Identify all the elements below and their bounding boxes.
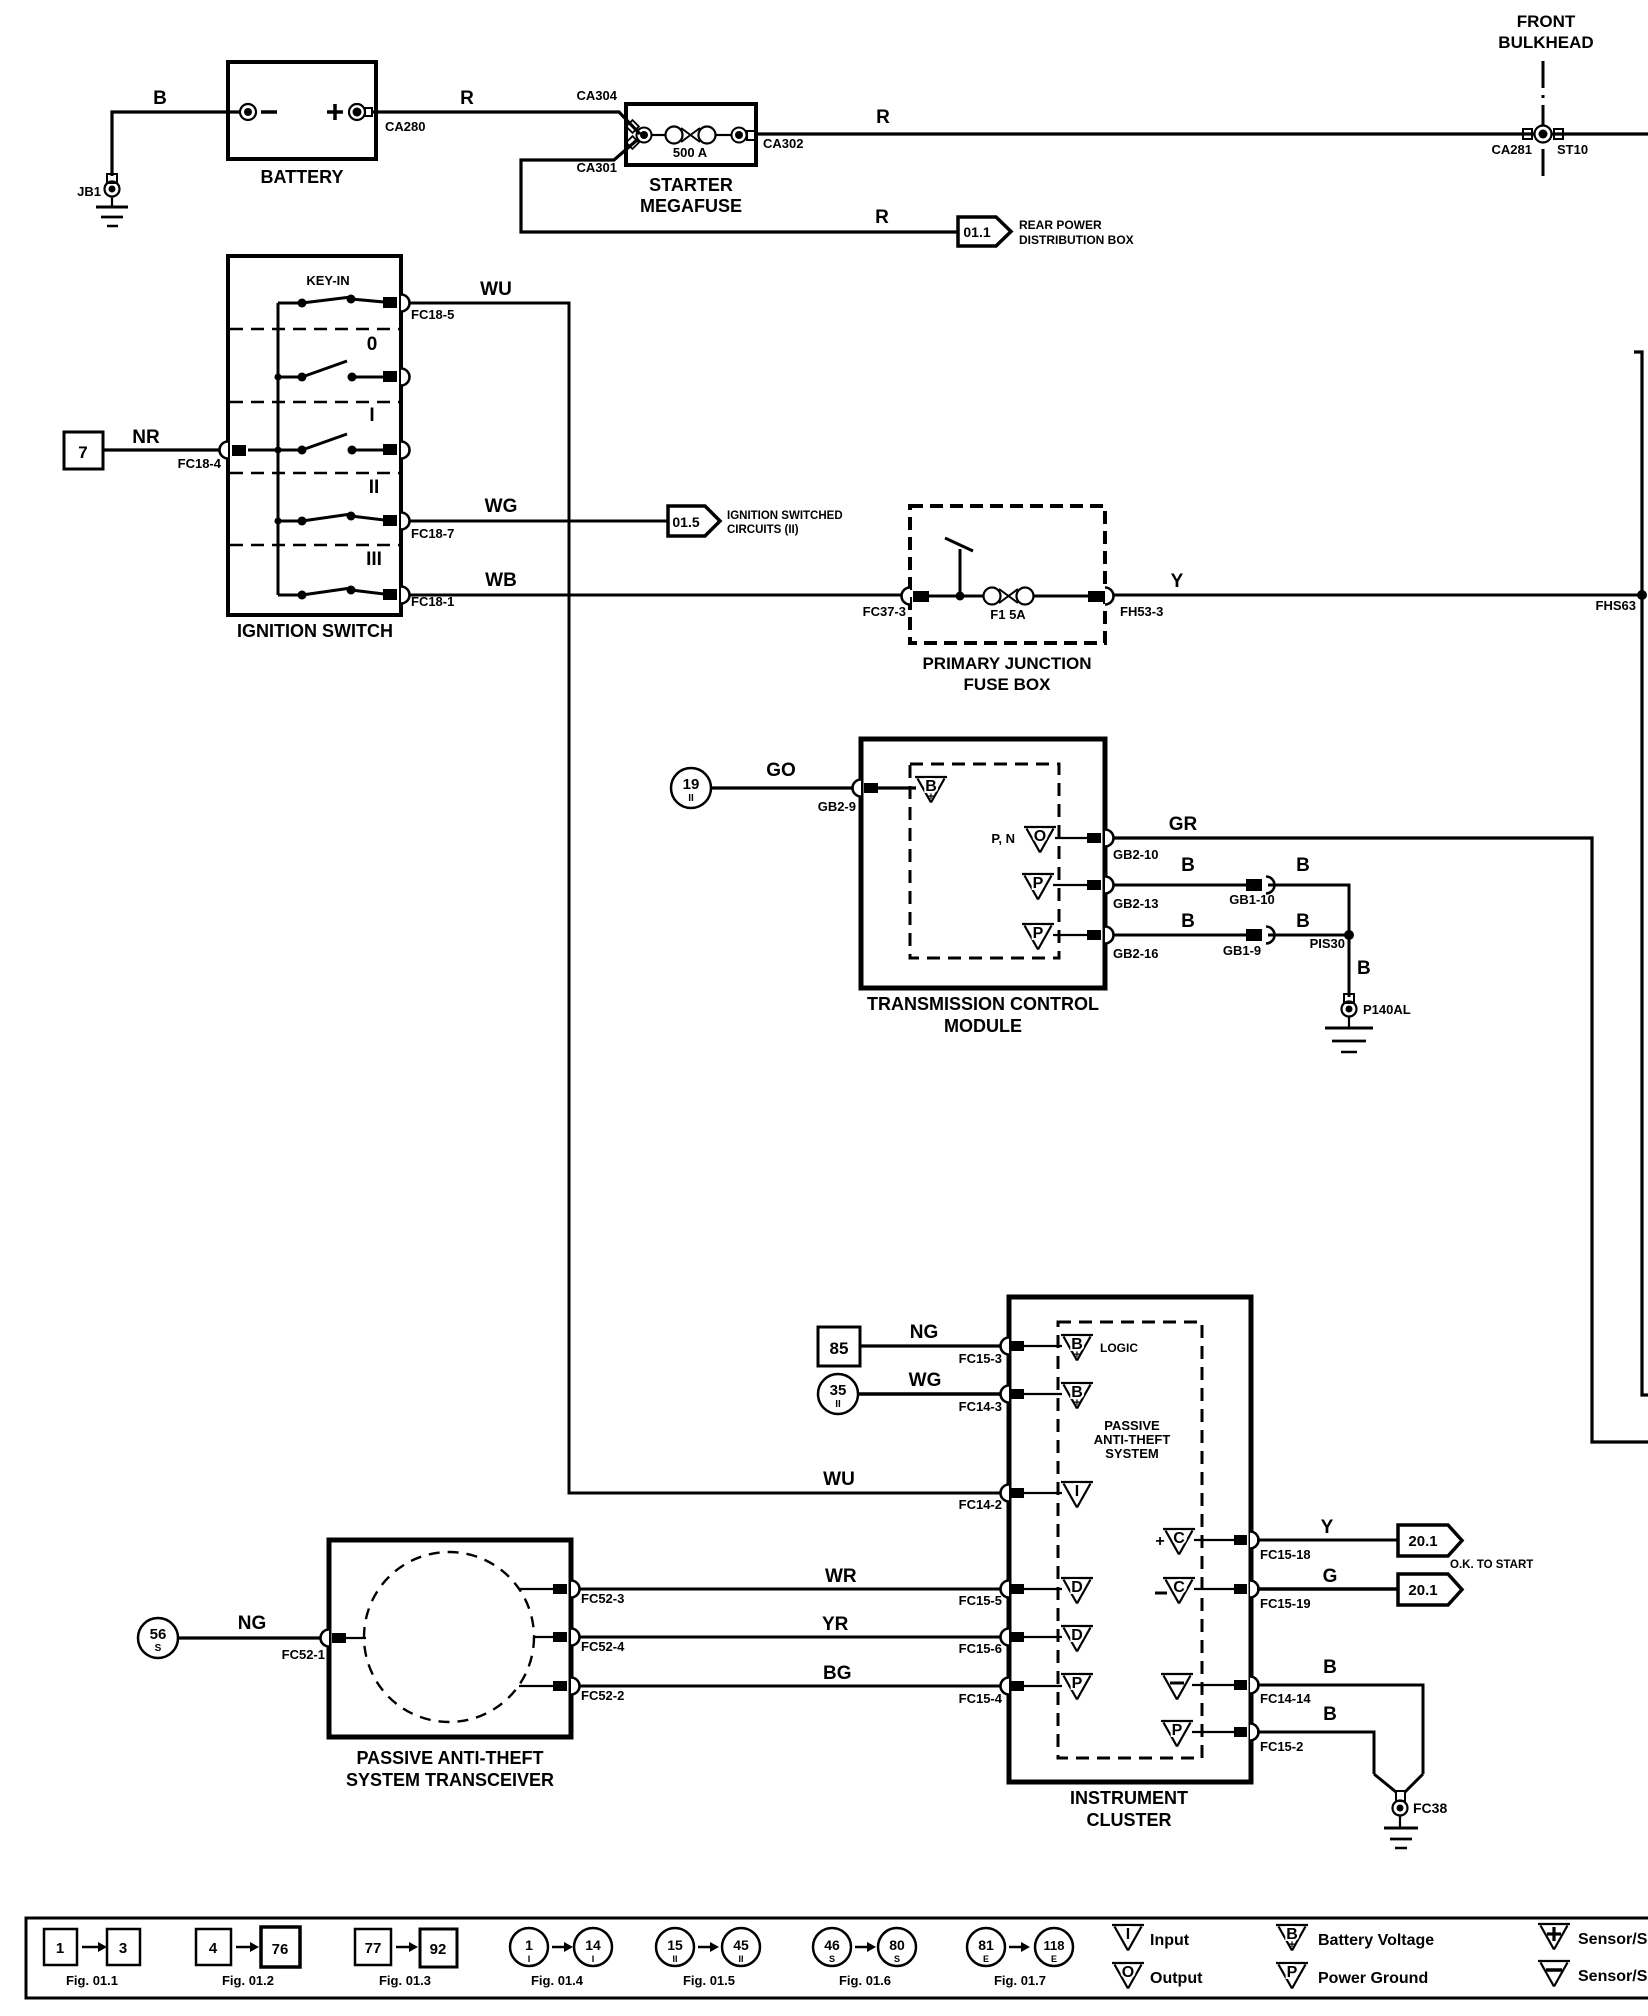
svg-text:S: S bbox=[155, 1643, 162, 1654]
svg-text:+: + bbox=[1289, 1939, 1295, 1951]
svg-text:FC14-14: FC14-14 bbox=[1260, 1691, 1311, 1706]
svg-text:FC52-1: FC52-1 bbox=[282, 1647, 325, 1662]
svg-text:II: II bbox=[688, 793, 694, 804]
wire BG transceiver to cluster bbox=[579, 1663, 1002, 1686]
svg-text:P140AL: P140AL bbox=[1363, 1002, 1411, 1017]
pin FC52-3 bbox=[519, 1581, 624, 1607]
svg-text:TRANSMISSION CONTROL: TRANSMISSION CONTROL bbox=[867, 994, 1099, 1014]
ignition switch stage separator lines bbox=[230, 329, 399, 570]
symbol P (FC15-4) bbox=[1061, 1674, 1093, 1700]
symbol battery voltage B+ bbox=[915, 777, 947, 803]
svg-text:GB2-16: GB2-16 bbox=[1113, 946, 1159, 961]
svg-text:O.K. TO START: O.K. TO START bbox=[1450, 1559, 1533, 1571]
svg-text:I: I bbox=[369, 405, 374, 426]
legend fig 01.3 bbox=[355, 1929, 457, 1988]
svg-text:FC15-2: FC15-2 bbox=[1260, 1739, 1303, 1754]
TCM inner dashed box bbox=[910, 764, 1059, 958]
symbol output O with P,N bbox=[991, 827, 1087, 853]
svg-text:+: + bbox=[1074, 1397, 1080, 1409]
connector GB1-10 bbox=[1229, 877, 1275, 908]
svg-text:FC14-3: FC14-3 bbox=[959, 1399, 1002, 1414]
svg-text:YR: YR bbox=[822, 1614, 849, 1635]
legend fig 01.2 bbox=[196, 1927, 300, 1988]
svg-text:CA301: CA301 bbox=[577, 160, 617, 175]
svg-text:LOGIC: LOGIC bbox=[1100, 1341, 1138, 1355]
svg-text:B: B bbox=[153, 88, 167, 109]
svg-text:15: 15 bbox=[667, 1937, 683, 1953]
ignition switch contact 0 row bbox=[275, 361, 398, 382]
svg-text:PIS30: PIS30 bbox=[1310, 936, 1345, 951]
svg-text:0: 0 bbox=[367, 334, 378, 355]
legend battery voltage symbol bbox=[1276, 1925, 1434, 1951]
svg-text:O: O bbox=[1034, 828, 1046, 845]
svg-text:FC52-2: FC52-2 bbox=[581, 1688, 624, 1703]
svg-text:20.1: 20.1 bbox=[1408, 1533, 1437, 1550]
svg-text:FC37-3: FC37-3 bbox=[863, 604, 906, 619]
svg-text:GB2-13: GB2-13 bbox=[1113, 896, 1159, 911]
svg-text:MEGAFUSE: MEGAFUSE bbox=[640, 196, 742, 216]
svg-text:Sensor/S: Sensor/S bbox=[1578, 1968, 1648, 1985]
svg-text:I: I bbox=[592, 1954, 595, 1964]
wire WG ignition to pointer 01.5 bbox=[410, 496, 668, 521]
symbol power ground P (GB2-16) bbox=[1022, 924, 1087, 950]
wire G to pointer 20.1 bbox=[1257, 1566, 1398, 1589]
svg-text:Battery Voltage: Battery Voltage bbox=[1318, 1932, 1434, 1949]
svg-text:II: II bbox=[835, 1399, 841, 1410]
pin FC15-18 bbox=[1234, 1532, 1311, 1563]
svg-text:14: 14 bbox=[585, 1937, 601, 1953]
svg-text:GB1-10: GB1-10 bbox=[1229, 892, 1275, 907]
svg-text:4: 4 bbox=[209, 1940, 218, 1957]
svg-text:NG: NG bbox=[238, 1613, 267, 1634]
svg-text:85: 85 bbox=[830, 1339, 849, 1358]
battery positive terminal bbox=[327, 104, 372, 120]
svg-text:WG: WG bbox=[909, 1370, 942, 1391]
legend input symbol bbox=[1112, 1925, 1190, 1951]
svg-text:45: 45 bbox=[733, 1937, 749, 1953]
svg-text:1: 1 bbox=[525, 1937, 533, 1953]
svg-text:CA302: CA302 bbox=[763, 136, 803, 151]
svg-text:CA281: CA281 bbox=[1492, 142, 1532, 157]
svg-text:FC15-5: FC15-5 bbox=[959, 1593, 1002, 1608]
primary junction fuse box bbox=[910, 506, 1105, 694]
svg-text:IGNITION SWITCH: IGNITION SWITCH bbox=[237, 621, 393, 641]
legend fig 01.1 bbox=[44, 1929, 140, 1988]
pin FC14-3 bbox=[959, 1386, 1062, 1415]
pin FH53-3 bbox=[1088, 588, 1163, 620]
svg-text:+: + bbox=[1074, 1349, 1080, 1361]
node PIS30 bbox=[1310, 930, 1354, 951]
svg-text:STARTER: STARTER bbox=[649, 175, 733, 195]
pin FC15-6 bbox=[959, 1629, 1062, 1657]
wire GR to right edge bbox=[1113, 814, 1648, 1442]
svg-text:I: I bbox=[528, 1954, 531, 1964]
svg-text:SYSTEM TRANSCEIVER: SYSTEM TRANSCEIVER bbox=[346, 1770, 554, 1790]
svg-text:FC52-4: FC52-4 bbox=[581, 1639, 625, 1654]
svg-text:JB1: JB1 bbox=[77, 184, 101, 199]
svg-text:1: 1 bbox=[56, 1940, 64, 1957]
pointer 20.1 upper bbox=[1398, 1525, 1462, 1556]
wire B FC14-14 bbox=[1257, 1657, 1423, 1774]
svg-text:01.1: 01.1 bbox=[963, 224, 990, 240]
svg-text:BATTERY: BATTERY bbox=[261, 167, 344, 187]
ground at P140AL bbox=[1325, 1016, 1373, 1052]
svg-text:GB1-9: GB1-9 bbox=[1223, 943, 1261, 958]
svg-text:7: 7 bbox=[78, 443, 87, 462]
wire WG 35 to FC14-3 bbox=[858, 1370, 1002, 1394]
pin FC52-1 bbox=[282, 1630, 366, 1663]
cluster inner dashed box bbox=[1058, 1322, 1202, 1758]
svg-text:III: III bbox=[366, 549, 382, 570]
svg-text:FUSE BOX: FUSE BOX bbox=[964, 675, 1052, 694]
svg-text:B: B bbox=[1323, 1704, 1337, 1725]
svg-text:81: 81 bbox=[978, 1937, 994, 1953]
svg-text:B: B bbox=[1323, 1657, 1337, 1678]
wire YR transceiver to cluster bbox=[579, 1614, 1002, 1637]
pin GB2-9 bbox=[818, 780, 916, 815]
svg-text:Power Ground: Power Ground bbox=[1318, 1970, 1428, 1987]
svg-text:MODULE: MODULE bbox=[944, 1016, 1022, 1036]
svg-text:Fig. 01.2: Fig. 01.2 bbox=[222, 1973, 274, 1988]
fuse F1 5A bbox=[929, 588, 1090, 623]
symbol +C bbox=[1155, 1529, 1234, 1555]
svg-text:E: E bbox=[983, 1954, 989, 1964]
svg-text:3: 3 bbox=[119, 1940, 127, 1957]
wire NR bbox=[103, 427, 219, 450]
legend border bbox=[26, 1918, 1648, 1998]
svg-text:B: B bbox=[1357, 958, 1371, 979]
svg-text:Output: Output bbox=[1150, 1970, 1203, 1987]
svg-text:FH53-3: FH53-3 bbox=[1120, 604, 1163, 619]
svg-text:+: + bbox=[928, 791, 934, 803]
symbol -C bbox=[1155, 1578, 1234, 1604]
legend output symbol bbox=[1112, 1963, 1203, 1989]
svg-text:FC18-7: FC18-7 bbox=[411, 526, 454, 541]
battery negative terminal bbox=[240, 104, 277, 120]
switch symbol in fuse box bbox=[945, 538, 973, 601]
pin FC15-4 bbox=[959, 1678, 1062, 1707]
svg-text:SYSTEM: SYSTEM bbox=[1105, 1446, 1158, 1461]
svg-text:+: + bbox=[1155, 1533, 1164, 1550]
circle 19 II bbox=[671, 768, 711, 808]
pin FC15-5 bbox=[959, 1581, 1062, 1609]
svg-text:Fig. 01.6: Fig. 01.6 bbox=[839, 1973, 891, 1988]
svg-text:FC15-4: FC15-4 bbox=[959, 1691, 1003, 1706]
pin FC15-2 bbox=[1234, 1724, 1303, 1755]
svg-text:II: II bbox=[738, 1954, 743, 1964]
connector CA281/ST10 bbox=[1492, 126, 1589, 158]
svg-text:E: E bbox=[1051, 1954, 1057, 1964]
svg-text:FC15-6: FC15-6 bbox=[959, 1641, 1002, 1656]
megafuse left terminal CA304/CA301 bbox=[626, 120, 651, 149]
wire R megafuse to right edge bbox=[755, 107, 1648, 134]
legend sensor minus symbol bbox=[1538, 1961, 1648, 1987]
svg-text:I: I bbox=[1075, 1483, 1079, 1500]
wire Y to pointer 20.1 bbox=[1257, 1517, 1398, 1540]
box 85 bbox=[818, 1327, 860, 1366]
pin FC15-19 bbox=[1234, 1581, 1311, 1612]
wire CA301 to rear power distribution box bbox=[521, 140, 958, 232]
svg-text:92: 92 bbox=[430, 1941, 447, 1958]
wire WU ignition to instrument cluster bbox=[410, 279, 1002, 1493]
svg-text:FC18-4: FC18-4 bbox=[178, 456, 222, 471]
pin FC14-2 bbox=[959, 1485, 1062, 1513]
pin GB2-16 bbox=[1087, 927, 1159, 962]
splice funnel to FC38 bbox=[1374, 1774, 1423, 1801]
ignition switch contact KEY-IN row bbox=[278, 295, 397, 309]
svg-text:B: B bbox=[1181, 855, 1195, 876]
symbol D (FC15-5) bbox=[1061, 1578, 1093, 1604]
ignition switch contact III row bbox=[278, 586, 397, 601]
svg-text:II: II bbox=[369, 477, 380, 498]
symbol input I bbox=[1061, 1482, 1093, 1508]
svg-text:BG: BG bbox=[823, 1663, 852, 1684]
pin GB2-13 bbox=[1087, 877, 1159, 912]
wire B FC15-2 bbox=[1257, 1704, 1374, 1774]
svg-text:R: R bbox=[875, 207, 889, 228]
svg-text:P: P bbox=[1287, 1964, 1298, 1981]
svg-text:P, N: P, N bbox=[991, 831, 1015, 846]
svg-text:INSTRUMENT: INSTRUMENT bbox=[1070, 1788, 1188, 1808]
battery box bbox=[228, 62, 376, 159]
svg-text:ANTI-THEFT: ANTI-THEFT bbox=[1094, 1432, 1171, 1447]
svg-text:FRONT: FRONT bbox=[1517, 12, 1576, 31]
svg-text:Fig. 01.7: Fig. 01.7 bbox=[994, 1973, 1046, 1988]
svg-text:KEY-IN: KEY-IN bbox=[306, 273, 349, 288]
svg-text:P: P bbox=[1172, 1722, 1183, 1739]
svg-text:NG: NG bbox=[910, 1322, 939, 1343]
svg-text:C: C bbox=[1173, 1530, 1185, 1547]
svg-text:REAR POWER: REAR POWER bbox=[1019, 218, 1102, 232]
wire GO bbox=[711, 760, 854, 788]
svg-text:F1 5A: F1 5A bbox=[990, 607, 1026, 622]
svg-text:FHS63: FHS63 bbox=[1596, 598, 1636, 613]
svg-text:Fig. 01.4: Fig. 01.4 bbox=[531, 1973, 584, 1988]
legend sensor plus symbol bbox=[1538, 1924, 1648, 1950]
svg-text:DISTRIBUTION BOX: DISTRIBUTION BOX bbox=[1019, 233, 1134, 247]
svg-text:Fig. 01.3: Fig. 01.3 bbox=[379, 1973, 431, 1988]
wire Y fuse box to FHS63 bbox=[1113, 571, 1642, 595]
svg-text:19: 19 bbox=[683, 776, 700, 793]
svg-text:FC15-19: FC15-19 bbox=[1260, 1596, 1311, 1611]
svg-text:I: I bbox=[1126, 1926, 1130, 1943]
wire NG 56 to FC52-1 bbox=[178, 1613, 322, 1638]
svg-text:ST10: ST10 bbox=[1557, 142, 1588, 157]
svg-text:Input: Input bbox=[1150, 1932, 1190, 1949]
connector P140AL bbox=[1342, 994, 1411, 1017]
svg-text:01.5: 01.5 bbox=[672, 514, 699, 530]
svg-text:CLUSTER: CLUSTER bbox=[1087, 1810, 1172, 1830]
legend fig 01.7 bbox=[967, 1928, 1073, 1988]
wire B GB2-13 to GB1-10 bbox=[1113, 855, 1246, 885]
svg-text:Sensor/S: Sensor/S bbox=[1578, 1931, 1648, 1948]
wire B battery to JB1 bbox=[112, 88, 240, 176]
svg-text:S: S bbox=[894, 1954, 900, 1964]
wire B down to P140AL bbox=[1349, 935, 1371, 997]
svg-text:FC15-18: FC15-18 bbox=[1260, 1547, 1311, 1562]
svg-text:B: B bbox=[1181, 911, 1195, 932]
svg-text:FC38: FC38 bbox=[1413, 1800, 1447, 1816]
svg-text:GB2-10: GB2-10 bbox=[1113, 847, 1159, 862]
symbol power ground P (GB2-13) bbox=[1022, 874, 1087, 900]
svg-text:FC15-3: FC15-3 bbox=[959, 1351, 1002, 1366]
svg-text:B: B bbox=[1296, 911, 1310, 932]
svg-text:Fig. 01.5: Fig. 01.5 bbox=[683, 1973, 735, 1988]
pin bumps ignition switch bbox=[220, 295, 455, 610]
transmission control module box bbox=[861, 739, 1105, 1036]
svg-text:NR: NR bbox=[132, 427, 160, 448]
box 7 bbox=[64, 432, 103, 469]
svg-text:118: 118 bbox=[1044, 1938, 1065, 1953]
svg-text:WB: WB bbox=[485, 570, 517, 591]
svg-text:BULKHEAD: BULKHEAD bbox=[1498, 33, 1593, 52]
ground at JB1 bbox=[96, 196, 128, 226]
svg-text:CA280: CA280 bbox=[385, 119, 425, 134]
svg-text:56: 56 bbox=[150, 1626, 167, 1643]
pointer 01.1 rear power distribution box bbox=[958, 217, 1134, 247]
svg-text:WU: WU bbox=[480, 279, 512, 300]
svg-text:80: 80 bbox=[889, 1937, 905, 1953]
svg-text:II: II bbox=[672, 1954, 677, 1964]
svg-text:76: 76 bbox=[272, 1941, 289, 1958]
wire WB ignition to fuse box bbox=[410, 570, 902, 595]
symbol D (FC15-6) bbox=[1061, 1626, 1093, 1652]
pin FC52-4 bbox=[534, 1629, 625, 1655]
symbol P (FC15-2) bbox=[1161, 1721, 1234, 1747]
svg-text:CIRCUITS (II): CIRCUITS (II) bbox=[727, 524, 799, 536]
svg-text:GR: GR bbox=[1169, 814, 1198, 835]
svg-text:PRIMARY JUNCTION: PRIMARY JUNCTION bbox=[922, 654, 1091, 673]
svg-text:P: P bbox=[1072, 1675, 1083, 1692]
connector FC38 bbox=[1393, 1800, 1448, 1816]
wire B GB2-16 to GB1-9 bbox=[1113, 911, 1246, 935]
svg-text:46: 46 bbox=[824, 1937, 840, 1953]
svg-text:C: C bbox=[1173, 1579, 1185, 1596]
wire NG 85 to FC15-3 bbox=[860, 1322, 1002, 1346]
svg-text:B: B bbox=[1296, 855, 1310, 876]
symbol B+ logic bbox=[1061, 1335, 1138, 1361]
svg-text:Fig. 01.1: Fig. 01.1 bbox=[66, 1973, 118, 1988]
ignition switch box bbox=[228, 256, 401, 641]
starter megafuse box bbox=[626, 104, 756, 216]
svg-text:500 A: 500 A bbox=[673, 145, 708, 160]
svg-text:WG: WG bbox=[485, 496, 518, 517]
svg-text:CA304: CA304 bbox=[577, 88, 618, 103]
svg-text:WU: WU bbox=[823, 1469, 855, 1490]
symbol B+ second bbox=[1061, 1383, 1093, 1409]
svg-text:GB2-9: GB2-9 bbox=[818, 799, 856, 814]
pointer 01.5 ignition switched circuits bbox=[668, 506, 843, 536]
svg-text:G: G bbox=[1323, 1566, 1338, 1587]
svg-text:FC52-3: FC52-3 bbox=[581, 1591, 624, 1606]
legend fig 01.6 bbox=[813, 1928, 916, 1988]
front bulkhead line bbox=[1498, 12, 1593, 183]
fuse 500 A bbox=[651, 127, 731, 161]
transceiver dashed circle bbox=[364, 1552, 534, 1722]
symbol minus bbox=[1161, 1674, 1234, 1700]
svg-text:O: O bbox=[1122, 1964, 1134, 1981]
svg-text:WR: WR bbox=[825, 1566, 857, 1587]
ignition switch contact I row with pin FC18-4 bbox=[178, 434, 397, 471]
svg-text:D: D bbox=[1071, 1627, 1083, 1644]
svg-text:D: D bbox=[1071, 1579, 1083, 1596]
svg-text:PASSIVE ANTI-THEFT: PASSIVE ANTI-THEFT bbox=[356, 1748, 543, 1768]
wire B GB1-9 to node PIS30 bbox=[1268, 911, 1349, 935]
connector GB1-9 bbox=[1223, 927, 1275, 959]
svg-text:Y: Y bbox=[1171, 571, 1184, 592]
instrument cluster box bbox=[1009, 1297, 1251, 1830]
pin FC52-2 bbox=[519, 1678, 624, 1704]
wire R battery to megafuse, node CA280/CA304 bbox=[372, 88, 640, 134]
right edge wire with node FHS63 bbox=[1596, 352, 1648, 1395]
ground at FC38 bbox=[1384, 1815, 1418, 1848]
circle 35 II bbox=[818, 1374, 858, 1414]
svg-text:35: 35 bbox=[830, 1382, 847, 1399]
pin FC14-14 bbox=[1234, 1677, 1311, 1707]
svg-text:PASSIVE: PASSIVE bbox=[1104, 1418, 1160, 1433]
passive anti-theft system transceiver box bbox=[329, 1540, 571, 1790]
pin FC37-3 bbox=[863, 588, 929, 620]
pin FC15-3 bbox=[959, 1338, 1062, 1367]
svg-text:77: 77 bbox=[365, 1940, 382, 1957]
svg-text:P: P bbox=[1033, 875, 1044, 892]
connector JB1 bbox=[77, 174, 119, 199]
svg-text:FC14-2: FC14-2 bbox=[959, 1497, 1002, 1512]
pin GB2-10 bbox=[1087, 830, 1159, 863]
megafuse right terminal CA302 bbox=[732, 128, 804, 152]
ignition switch contact II row bbox=[275, 512, 398, 527]
svg-text:P: P bbox=[1033, 925, 1044, 942]
ignition switch common line bbox=[277, 303, 280, 595]
legend fig 01.4 bbox=[510, 1928, 612, 1988]
svg-text:R: R bbox=[876, 107, 890, 128]
svg-text:20.1: 20.1 bbox=[1408, 1582, 1437, 1599]
wire B GB1-10 to corner bbox=[1268, 855, 1349, 935]
svg-text:GO: GO bbox=[766, 760, 796, 781]
wire WR transceiver to cluster bbox=[579, 1566, 1002, 1589]
pointer 20.1 lower bbox=[1398, 1574, 1462, 1605]
svg-text:FC18-5: FC18-5 bbox=[411, 307, 454, 322]
svg-text:Y: Y bbox=[1321, 1517, 1334, 1538]
svg-text:S: S bbox=[829, 1954, 835, 1964]
circle 56 S bbox=[138, 1618, 178, 1658]
svg-text:R: R bbox=[460, 88, 474, 109]
legend power ground symbol bbox=[1276, 1963, 1428, 1989]
svg-text:IGNITION SWITCHED: IGNITION SWITCHED bbox=[727, 510, 843, 522]
legend fig 01.5 bbox=[656, 1928, 760, 1988]
